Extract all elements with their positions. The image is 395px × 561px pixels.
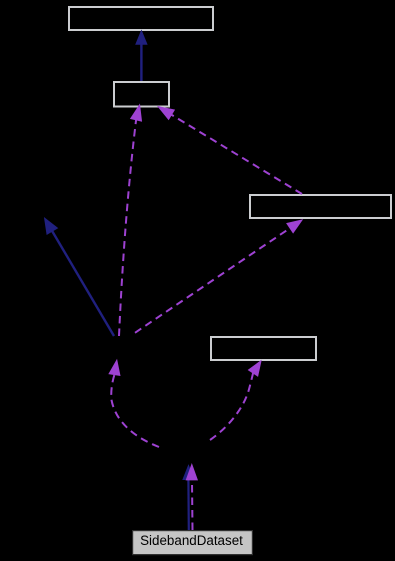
node B (second empty box) [114,82,169,107]
edge G to D (dashed usage arrow, right cup curve) [210,361,261,440]
edge H to F (long solid inheritance arrow, up-left) [45,218,114,336]
edge B to A (solid inheritance arrow) [136,31,147,81]
edge G to H (dashed usage arrow, left cup curve) [109,360,159,447]
edge C to B (dashed usage arrow, diagonal from C top to B corner) [158,107,302,194]
node E: SidebandDataset (current class, gray filled) [133,531,253,555]
svg-text:SidebandDataset: SidebandDataset [140,533,243,548]
node C (right empty box) [250,195,391,218]
edge E to G (solid inheritance arrow, hidden behind dashed) [183,466,194,531]
edge H to B (dashed usage arrow, long vertical) [119,105,142,336]
node A (top empty box) [69,7,213,30]
edge E to G (dashed usage arrow) [186,465,197,531]
node D (middle empty box) [211,337,316,360]
edge H to C (dashed usage arrow, diagonal up-right) [135,220,302,333]
